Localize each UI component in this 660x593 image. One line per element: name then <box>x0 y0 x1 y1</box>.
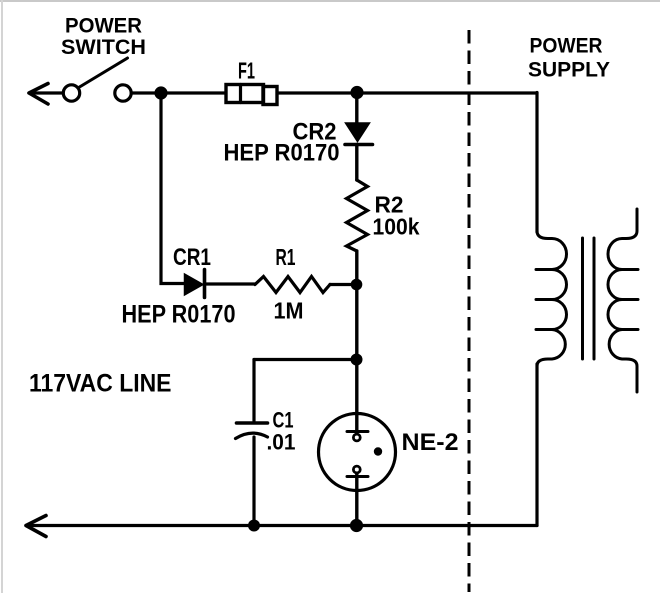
transformer T1 core <box>583 238 595 359</box>
svg-text:CR1: CR1 <box>173 244 211 271</box>
switch S1 pole terminal <box>63 85 79 101</box>
label POWER SUPPLY <box>528 35 610 82</box>
wire: CR1 to R1 <box>205 282 256 285</box>
transformer T1 secondary winding <box>608 209 638 392</box>
node: junction NE-2 / bottom rail <box>350 519 363 532</box>
svg-text:NE-2: NE-2 <box>402 429 459 456</box>
wire: C1 branch horizontal <box>254 358 357 361</box>
wire: fuse to power-supply corner (top rail) <box>278 91 538 94</box>
neon lamp NE-2 top electrode <box>347 414 368 441</box>
node: junction of switch, fuse, CR1 branch <box>154 86 167 99</box>
svg-text:POWER: POWER <box>65 15 142 38</box>
neon lamp NE-2 gas dot <box>374 447 382 455</box>
svg-text:HEP R0170: HEP R0170 <box>122 301 236 329</box>
node: junction R1/R2/NE-2 branch <box>351 279 363 291</box>
wire: middle junction down to NE-2 top electrode <box>355 285 358 434</box>
capacitor C1 <box>236 423 268 439</box>
wire: bottom rail with arrow (AC line return) <box>26 516 537 537</box>
resistor R2 <box>347 180 368 251</box>
svg-text:R1: R1 <box>276 244 296 270</box>
wire: left branch down from switch junction and over to CR1 <box>161 93 184 284</box>
svg-text:1M: 1M <box>274 298 304 324</box>
node: junction C1 tap <box>351 354 363 366</box>
wire: AC line hot lead with arrow (left input) <box>29 84 62 105</box>
wire: R1 to middle junction <box>330 283 357 286</box>
switch S1 lever <box>80 58 128 87</box>
svg-text:F1: F1 <box>238 58 255 84</box>
wire: R2 to middle junction <box>355 251 358 285</box>
wire: switch to fuse <box>132 91 226 94</box>
resistor R1 <box>255 277 330 293</box>
fuse F1 <box>226 85 277 105</box>
svg-text:.01: .01 <box>267 430 296 455</box>
wire: top rail corner down to transformer primary <box>535 93 538 233</box>
svg-text:100k: 100k <box>373 214 420 240</box>
label POWER SWITCH <box>61 15 146 60</box>
node: junction top rail / CR2 branch <box>350 86 363 99</box>
wire: CR2 to R2 <box>355 145 358 181</box>
wire: capacitor to bottom rail <box>252 437 255 526</box>
svg-text:SUPPLY: SUPPLY <box>528 59 610 82</box>
svg-text:POWER: POWER <box>530 35 603 58</box>
neon lamp NE-2 envelope <box>319 414 396 491</box>
svg-text:HEP R0170: HEP R0170 <box>224 140 340 167</box>
wire: junction down to CR2 <box>355 93 358 125</box>
svg-text:SWITCH: SWITCH <box>61 36 146 59</box>
transformer T1 primary winding <box>536 231 567 366</box>
neon lamp NE-2 bottom electrode <box>347 466 368 525</box>
svg-text:117VAC LINE: 117VAC LINE <box>29 370 172 398</box>
node: junction C1 / bottom rail <box>248 520 260 532</box>
switch S1 throw terminal <box>115 85 131 101</box>
diode CR1 (cathode right) <box>185 270 205 298</box>
wire: C1 branch down to capacitor <box>252 360 255 422</box>
diode CR2 (cathode down) <box>345 123 373 145</box>
wire: transformer primary down to bottom rail <box>535 364 538 526</box>
boundary: dashed power-supply separator <box>468 30 471 592</box>
